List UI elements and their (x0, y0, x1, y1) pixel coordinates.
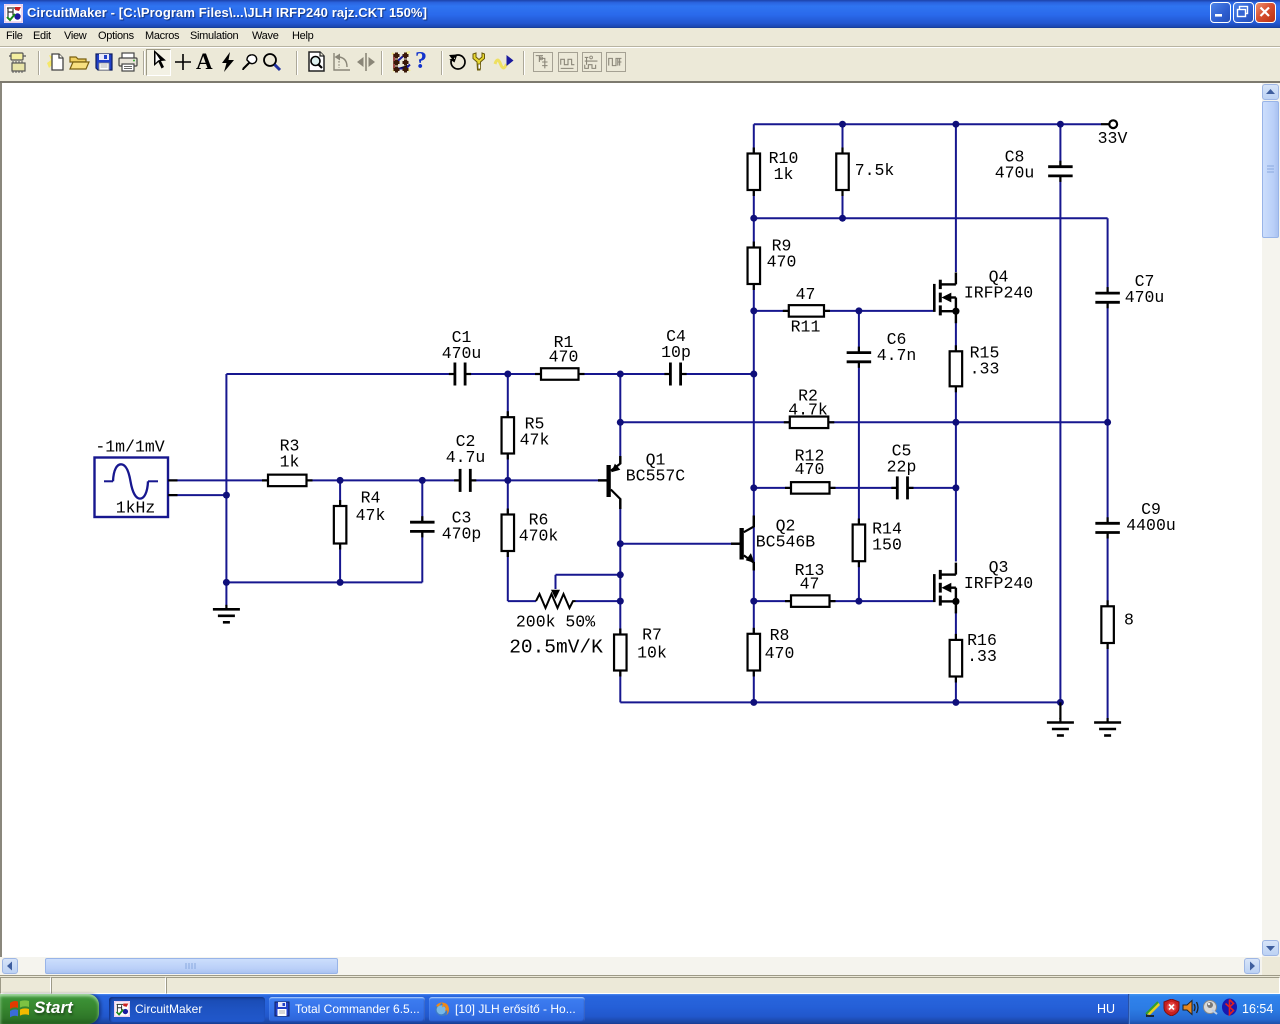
svg-text:C7470u: C7470u (1125, 272, 1165, 307)
node junction (955.9,124.2) (952, 121, 959, 128)
svg-text:C24.7u: C24.7u (446, 432, 486, 467)
node junction (858.9,601.1) (855, 598, 862, 605)
resistor R7 10k (614, 625, 667, 676)
svg-text:R447k: R447k (356, 489, 386, 526)
svg-text:Q4IRFP240: Q4IRFP240 (964, 268, 1033, 303)
node junction (753.8,702.4) (750, 699, 757, 706)
svg-text:8: 8 (1124, 611, 1134, 630)
node junction (1060.4,702.4) (1057, 699, 1064, 706)
wire left ground column (225, 374, 227, 606)
potentiometer 200k 50% (516, 575, 595, 632)
wire Q3 source / R16 column (955, 612, 957, 702)
resistor 7.5k (836, 148, 894, 197)
resistor R13 47 (785, 561, 836, 607)
capacitor C5 22p (887, 442, 917, 500)
svg-text:R8470: R8470 (765, 626, 795, 663)
wire C6/R14 column (858, 311, 860, 352)
capacitor C2 4.7u (446, 432, 486, 492)
capacitor C4 10p (661, 327, 691, 386)
wire R4 column (339, 480, 341, 582)
svg-text:C3470p: C3470p (442, 509, 482, 544)
resistor R12 470 (785, 447, 836, 494)
wire 7.5k column (842, 124, 844, 218)
svg-text:R710k: R710k (637, 625, 667, 662)
resistor R9 470 (748, 237, 797, 290)
svg-text:C94400u: C94400u (1126, 500, 1176, 535)
ground (speaker) (1094, 718, 1121, 736)
resistor R5 47k (502, 411, 550, 459)
transistor Q1 BC557C (PNP) (598, 451, 685, 509)
ground (C8 / bottom rail) (1047, 702, 1074, 735)
svg-text:R15.33: R15.33 (970, 344, 1000, 379)
node junction (955.9,422.3) (952, 419, 959, 426)
node junction (507.8,480.4) (504, 477, 511, 484)
resistor R16 .33 (950, 631, 997, 683)
wire input coupling rail C1/R1/C4 (226, 373, 454, 375)
node junction (620.3,601.1) (617, 598, 624, 605)
capacitor C3 470p (410, 509, 481, 544)
terminal 33V supply (1098, 120, 1128, 148)
svg-text:R12470: R12470 (795, 447, 825, 480)
svg-text:Q1BC557C: Q1BC557C (626, 451, 686, 486)
resistor R10 1k (748, 148, 799, 197)
node junction (340.1,480.4) (337, 477, 344, 484)
svg-text:C8470u: C8470u (995, 148, 1035, 183)
wire R5/R6 column (507, 374, 509, 601)
svg-text:-1m/1mV: -1m/1mV (95, 438, 164, 457)
node junction (955.9,487.9) (952, 484, 959, 491)
resistor R11 47 (783, 285, 830, 337)
node junction (226.4,582.4) (223, 579, 230, 586)
wire Q4 source / R15 / Q3 drain column (955, 323, 957, 562)
svg-text:Q3IRFP240: Q3IRFP240 (964, 558, 1033, 593)
wire Q2 base rail (620, 543, 739, 545)
node junction (620.3,374.0) (617, 371, 624, 378)
wire Q3 gate rail (R13 row) (754, 600, 933, 602)
svg-text:Q2BC546B: Q2BC546B (756, 517, 816, 552)
wire source bottom lead (169, 494, 226, 496)
svg-text:C410p: C410p (661, 327, 691, 362)
svg-text:R16.33: R16.33 (967, 631, 997, 666)
svg-text:33V: 33V (1098, 129, 1128, 148)
wire Q1 emitter column (619, 374, 621, 464)
wire left ground rail (226, 581, 422, 583)
wire C3 column (421, 480, 423, 521)
node junction (620.3,422.3) (617, 419, 624, 426)
svg-text:R24.7k: R24.7k (788, 387, 828, 420)
svg-text:R31k: R31k (280, 437, 300, 472)
svg-text:R11: R11 (791, 318, 821, 337)
wire pot left lead (508, 600, 536, 602)
node junction (842.5,218.2) (839, 215, 846, 222)
node junction (226.4,495.1) (223, 492, 230, 499)
capacitor C6 4.7n (847, 330, 917, 368)
capacitor C8 470u (995, 148, 1073, 183)
wire pot right lead (576, 600, 621, 602)
node junction (842.5,124.2) (839, 121, 846, 128)
wire bootstrap rail (R9/7.5k bottom to C7 top) (754, 217, 1108, 219)
resistor R8 470 (748, 626, 795, 677)
svg-text:C1470u: C1470u (442, 328, 482, 363)
svg-text:R1470: R1470 (549, 333, 579, 366)
svg-text:C64.7n: C64.7n (877, 330, 917, 365)
node junction (753.8,218.2) (750, 215, 757, 222)
node junction (955.9,702.4) (952, 699, 959, 706)
resistor R15 .33 (950, 344, 1000, 393)
node junction (1060.4,124.2) (1057, 121, 1064, 128)
node junction (340.1,582.4) (337, 579, 344, 586)
node junction (753.8,374.0) (750, 371, 757, 378)
resistor R14 150 (853, 519, 902, 568)
wire Q4 drain column (955, 124, 957, 272)
svg-text:R1347: R1347 (795, 561, 825, 594)
node junction (858.9,310.9) (855, 307, 862, 314)
wire Q4 gate rail (R11 to Q4) (754, 310, 933, 312)
node junction (1107.6,422.3) (1104, 419, 1111, 426)
signal source -1m/1mV 1kHz (95, 438, 178, 518)
svg-text:C522p: C522p (887, 442, 917, 477)
wire output rail (R2 row, to C7 bottom) (620, 421, 1107, 423)
svg-text:47: 47 (796, 285, 816, 304)
node junction (507.8,374.0) (504, 371, 511, 378)
svg-text:1kHz: 1kHz (116, 499, 156, 518)
transistor Q2 BC546B (NPN) (731, 516, 815, 571)
node junction (620.3,543.7) (617, 540, 624, 547)
svg-text:200k 50%: 200k 50% (516, 613, 595, 632)
resistor R2 4.7k (784, 387, 835, 428)
transistor Q3 (IRFP240 N-MOSFET) (934, 558, 1033, 613)
wire R10/R9/R8 column (753, 124, 755, 702)
svg-text:R547k: R547k (520, 415, 550, 450)
resistor R4 47k (334, 489, 386, 550)
svg-text:R9470: R9470 (767, 237, 797, 272)
resistor 8 ohm speaker (1101, 600, 1134, 649)
node junction (753.8,310.9) (750, 307, 757, 314)
wire C8 column (1059, 124, 1061, 167)
capacitor C1 470u (442, 328, 482, 386)
wire R12/C5 rail (Q2 collector row) (754, 487, 898, 489)
resistor R3 1k (262, 437, 313, 486)
svg-text:R6470k: R6470k (519, 511, 559, 546)
node junction (753.8,487.9) (750, 484, 757, 491)
wire Q1 base rail (source/R3/C2 row) (169, 479, 460, 481)
node junction (422.3,480.4) (419, 477, 426, 484)
transistor Q4 (IRFP240 N-MOSFET) (934, 268, 1033, 324)
svg-text:R101k: R101k (769, 149, 799, 184)
resistor R1 470 (535, 333, 585, 380)
wire bottom ground rail (620, 701, 1060, 703)
node junction (753.8,601.1) (750, 598, 757, 605)
wire Q1 collector / R7 column (619, 500, 621, 702)
node junction (620.3,574.8) (617, 571, 624, 578)
resistor R6 470k (502, 509, 559, 558)
svg-text:R14150: R14150 (872, 520, 902, 555)
capacitor C7 470u (1095, 272, 1164, 308)
svg-text:20.5mV/K: 20.5mV/K (509, 637, 603, 659)
wire +33V top supply rail (754, 123, 1101, 125)
svg-text:7.5k: 7.5k (855, 161, 895, 180)
wire pot wiper rail (556, 574, 621, 576)
capacitor C9 4400u (1095, 500, 1175, 538)
wire C7/C9/speaker column (1107, 218, 1109, 293)
ground (input) (213, 605, 240, 623)
